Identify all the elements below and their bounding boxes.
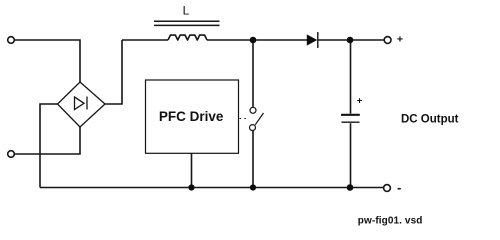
dashed control line PFC to switch: [240, 118, 250, 120]
svg-text:+: +: [357, 96, 363, 107]
wire top-left terminal to bridge top: [14, 40, 80, 82]
wire top rail to inductor: [122, 39, 168, 41]
svg-text:pw-fig01. vsd: pw-fig01. vsd: [358, 215, 423, 226]
inductor L coil: [168, 35, 207, 40]
wire top junction down to switch: [252, 40, 254, 107]
junction node cap-rail: [347, 184, 354, 191]
junction node PFC-rail: [188, 184, 194, 190]
bridge diode symbol: [75, 97, 85, 110]
wire bottom rail: [40, 187, 384, 189]
wire bottom-left terminal to bridge bottom: [14, 127, 80, 154]
wire bridge right vertex up to top rail: [105, 40, 122, 104]
wire capacitor bottom: [350, 123, 352, 187]
capacitor C1 plates: [341, 114, 360, 116]
wire PFC Drive to bottom rail: [191, 153, 193, 187]
svg-text:+: +: [397, 34, 403, 46]
terminal DC output plus: [384, 37, 391, 44]
wire diode cathode to + terminal: [318, 39, 384, 41]
inductor core bars: [154, 21, 220, 25]
junction node L-switch: [250, 37, 257, 44]
switch blade: [255, 113, 263, 125]
svg-text:DC Output: DC Output: [401, 114, 459, 126]
junction node switch-rail: [250, 184, 256, 190]
wire capacitor branch top: [350, 40, 352, 114]
terminal DC output minus: [384, 185, 391, 192]
wire inductor to diode: [207, 39, 308, 41]
terminal AC input top-left: [8, 37, 15, 44]
junction node diode-cap: [347, 37, 354, 44]
svg-text:-: -: [397, 181, 401, 195]
svg-text:PFC Drive: PFC Drive: [159, 109, 224, 124]
wire bridge left vertex to bottom rail: [40, 104, 58, 188]
diode D1 cathode bar: [317, 32, 319, 48]
diode D1 triangle: [307, 35, 316, 45]
wire switch bottom to bottom rail: [252, 131, 254, 188]
bridge rectifier BR1 diamond: [58, 82, 106, 127]
terminal AC input bottom-left: [8, 151, 15, 158]
svg-text:L: L: [183, 4, 190, 18]
switch Q1 contacts: [250, 107, 264, 130]
PFC Drive box U1: [146, 80, 239, 153]
